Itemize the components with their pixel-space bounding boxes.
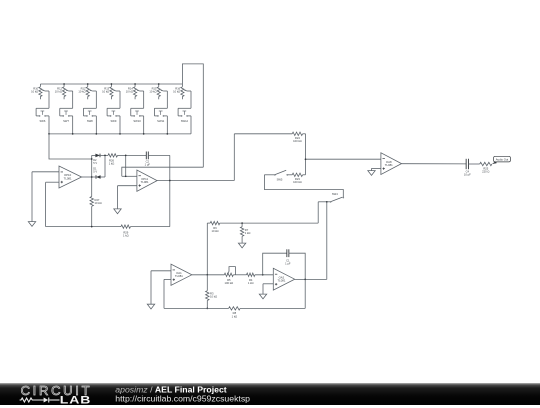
svg-text:10 kΩ: 10 kΩ — [126, 89, 133, 93]
svg-text:Audio Out: Audio Out — [496, 158, 509, 162]
svg-text:10 kΩ: 10 kΩ — [102, 89, 109, 93]
svg-text:TL081: TL081 — [175, 274, 183, 278]
svg-text:100 kΩ: 100 kΩ — [293, 139, 302, 143]
svg-text:10 kΩ: 10 kΩ — [149, 89, 156, 93]
svg-text:SW10: SW10 — [133, 119, 141, 123]
svg-text:LAB: LAB — [60, 393, 92, 405]
svg-text:1 kΩ: 1 kΩ — [109, 162, 115, 166]
svg-text:100 kΩ: 100 kΩ — [225, 281, 234, 285]
svg-text:1 kΩ: 1 kΩ — [245, 231, 251, 235]
svg-text:100 kΩ: 100 kΩ — [293, 180, 302, 184]
svg-text:SW4: SW4 — [332, 192, 338, 196]
svg-text:10 kΩ: 10 kΩ — [78, 89, 85, 93]
svg-text:1 kΩ: 1 kΩ — [248, 281, 254, 285]
svg-text:5 V: 5 V — [93, 170, 97, 174]
svg-text:10 kΩ: 10 kΩ — [211, 229, 218, 233]
svg-text:10 kΩ: 10 kΩ — [95, 201, 102, 205]
svg-text:10 kΩ: 10 kΩ — [55, 89, 62, 93]
svg-text:5 V: 5 V — [93, 161, 97, 165]
svg-text:TL081: TL081 — [64, 176, 72, 180]
svg-text:SW12: SW12 — [181, 119, 189, 123]
svg-text:TL081: TL081 — [385, 163, 393, 167]
svg-text:10 µF: 10 µF — [464, 173, 471, 177]
svg-text:SW11: SW11 — [157, 119, 165, 123]
svg-text:TL081: TL081 — [277, 279, 285, 283]
svg-text:1 kΩ: 1 kΩ — [232, 314, 238, 318]
svg-text:10 kΩ: 10 kΩ — [173, 89, 180, 93]
svg-text:SW8: SW8 — [87, 119, 93, 123]
svg-text:SW9: SW9 — [110, 119, 116, 123]
svg-text:10 kΩ: 10 kΩ — [31, 89, 38, 93]
svg-text:TL081: TL081 — [141, 180, 149, 184]
svg-text:10 kΩ: 10 kΩ — [210, 295, 217, 299]
svg-text:1 kΩ: 1 kΩ — [123, 234, 129, 238]
svg-text:1 µF: 1 µF — [145, 163, 151, 167]
svg-text:http://circuitlab.com/c959zcsu: http://circuitlab.com/c959zcsuektsp — [115, 393, 250, 403]
svg-text:220 Ω: 220 Ω — [482, 170, 489, 174]
svg-text:SW6: SW6 — [39, 119, 45, 123]
svg-text:SW5: SW5 — [277, 178, 283, 182]
svg-text:1 µF: 1 µF — [285, 262, 291, 266]
svg-text:SW7: SW7 — [63, 119, 69, 123]
